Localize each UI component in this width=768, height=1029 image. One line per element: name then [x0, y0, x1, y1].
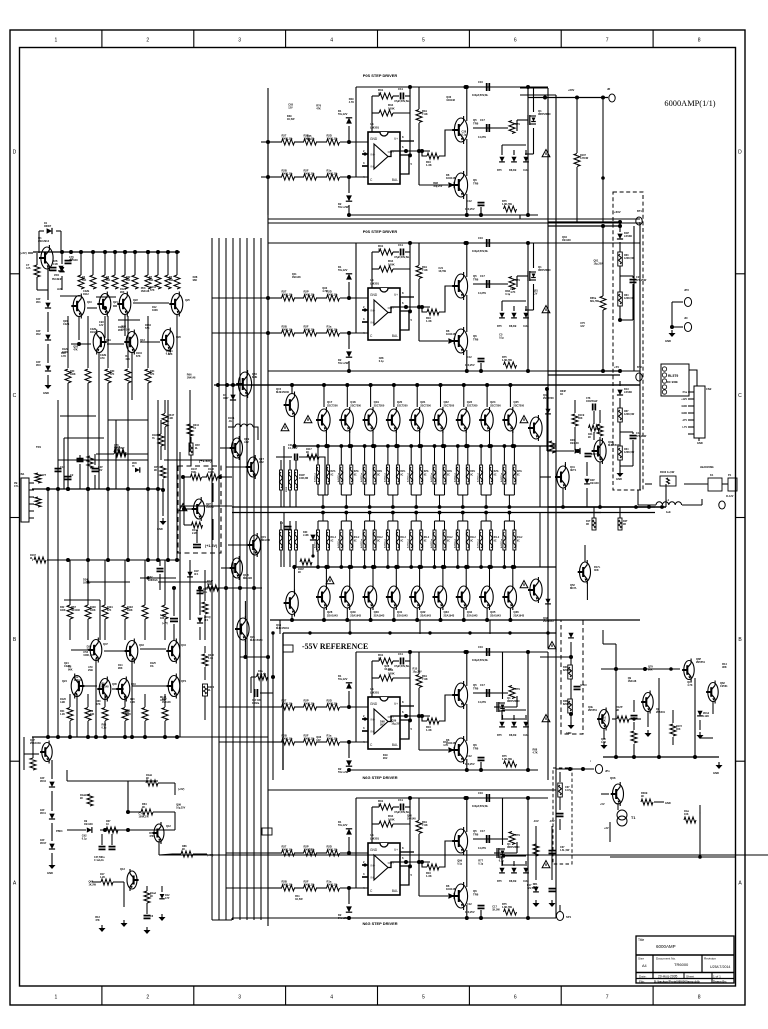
svg-text:1N4148: 1N4148 [162, 701, 171, 704]
svg-text:TR1: TR1 [36, 445, 42, 449]
svg-text:7.9K: 7.9K [422, 677, 428, 681]
svg-text:U25/LT/2014: U25/LT/2014 [710, 965, 730, 969]
svg-text:C12: C12 [467, 355, 472, 359]
svg-text:7A: 7A [193, 427, 196, 430]
svg-text:9L: 9L [208, 689, 211, 692]
svg-text:R64: R64 [563, 666, 568, 669]
svg-text:MC7L: MC7L [570, 586, 577, 590]
svg-text:R34: R34 [150, 370, 155, 373]
svg-text:D8,D9: D8,D9 [509, 879, 517, 883]
svg-text:57K: 57K [150, 374, 155, 376]
svg-text:9C: 9C [142, 805, 145, 809]
svg-text:Q13: Q13 [120, 867, 125, 871]
svg-text:12V: 12V [533, 293, 538, 296]
svg-text:TR6: TR6 [473, 121, 479, 125]
svg-text:ZD1P: ZD1P [40, 842, 47, 845]
svg-text:Date:: Date: [639, 975, 647, 979]
svg-text:0.1µ: 0.1µ [499, 859, 504, 862]
svg-text:4.7K: 4.7K [601, 741, 606, 744]
svg-text:QP1: QP1 [181, 679, 187, 683]
svg-text:Q28: Q28 [327, 610, 333, 614]
svg-text:100K,1%: 100K,1% [282, 883, 294, 887]
svg-text:9C: 9C [400, 541, 403, 543]
svg-text:Q36: Q36 [513, 610, 519, 614]
svg-text:94K: 94K [90, 713, 95, 716]
svg-text:1N4148: 1N4148 [407, 818, 416, 821]
svg-text:100,25V: 100,25V [465, 762, 475, 766]
svg-text:0.1µ: 0.1µ [457, 862, 462, 865]
svg-text:A-SCC-a: A-SCC-a [360, 538, 363, 548]
svg-text:CN1: CN1 [19, 472, 25, 476]
svg-text:1/4R,2W: 1/4R,2W [299, 477, 309, 480]
svg-text:4.7K: 4.7K [322, 290, 327, 293]
svg-text:5% LZW: 5% LZW [338, 205, 349, 209]
svg-text:2K2: 2K2 [380, 724, 385, 727]
svg-text:67K: 67K [136, 355, 141, 358]
svg-text:C10: C10 [478, 791, 483, 795]
svg-text:100K,1%: 100K,1% [282, 848, 294, 852]
svg-text:IRFP260N: IRFP260N [507, 845, 520, 849]
svg-text:47K: 47K [73, 348, 78, 351]
svg-text:1.6K,5W: 1.6K,5W [502, 757, 513, 761]
svg-text:R20: R20 [70, 371, 75, 373]
svg-text:IN+: IN+ [371, 309, 376, 313]
svg-text:4: 4 [330, 38, 333, 44]
svg-text:ZD3: ZD3 [36, 364, 41, 367]
svg-text:10µ,25V: 10µ,25V [413, 671, 423, 674]
svg-text:TR6: TR6 [473, 686, 479, 690]
svg-text:96K: 96K [648, 668, 653, 671]
svg-text:0R: 0R [623, 524, 626, 526]
svg-text:47K: 47K [125, 358, 130, 361]
svg-text:C10: C10 [478, 645, 483, 649]
svg-text:4.7V,C500: 4.7V,C500 [316, 541, 319, 552]
svg-text:5: 5 [422, 995, 425, 1001]
svg-text:2N5551: 2N5551 [588, 708, 598, 712]
svg-text:MJE15031: MJE15031 [276, 626, 289, 630]
svg-text:96K: 96K [601, 719, 606, 722]
svg-text:R2%: R2% [354, 471, 359, 473]
svg-text:IN-: IN- [371, 730, 375, 734]
svg-text:Q22: Q22 [444, 400, 450, 404]
svg-text:1N4148: 1N4148 [71, 609, 80, 612]
svg-text:4.7K/W: 4.7K/W [580, 157, 589, 160]
svg-text:R2%: R2% [517, 471, 522, 473]
svg-text:56K: 56K [82, 280, 87, 282]
svg-text:Q18: Q18 [350, 400, 356, 404]
svg-text:6000AMP(1/1): 6000AMP(1/1) [664, 99, 715, 108]
svg-text:1K,5W: 1K,5W [384, 668, 392, 671]
svg-text:V+: V+ [394, 702, 398, 706]
svg-text:4.7K: 4.7K [349, 101, 354, 104]
svg-text:+60V: +60V [614, 210, 621, 214]
svg-text:A-SCC-a: A-SCC-a [453, 538, 456, 548]
svg-text:9C: 9C [331, 541, 334, 543]
svg-text:GND: GND [682, 412, 688, 415]
svg-text:N6G STEP DRIVER: N6G STEP DRIVER [362, 775, 397, 780]
svg-text:GND: GND [43, 391, 49, 395]
svg-text:C11: C11 [398, 798, 403, 802]
svg-text:CN2: CN2 [706, 387, 712, 391]
svg-text:R79: R79 [515, 122, 520, 126]
svg-text:A-SCC-a: A-SCC-a [383, 472, 386, 482]
svg-text:Size: Size [638, 957, 644, 961]
svg-text:Q19: Q19 [374, 400, 380, 404]
svg-text:A4: A4 [642, 964, 647, 968]
svg-text:5%,12V: 5%,12V [338, 677, 348, 681]
svg-text:C10: C10 [478, 236, 483, 240]
svg-text:100V/BLW: 100V/BLW [586, 401, 598, 403]
svg-text:Q66: Q66 [610, 776, 616, 780]
svg-text:Q44: Q44 [181, 643, 186, 647]
svg-text:C17: C17 [480, 118, 485, 122]
svg-text:100K,1%: 100K,1% [304, 293, 316, 297]
svg-text:C2: C2 [70, 473, 74, 477]
svg-text:Q23: Q23 [467, 400, 473, 404]
svg-text:9C: 9C [641, 794, 644, 798]
svg-text:LM301: LM301 [370, 690, 379, 694]
svg-text:ZD11: ZD11 [40, 812, 46, 815]
svg-text:9C: 9C [80, 797, 83, 800]
svg-text:Q35: Q35 [490, 610, 496, 614]
svg-text:A-SCC-a: A-SCC-a [314, 472, 317, 482]
svg-text:10µ,25V: 10µ,25V [594, 262, 604, 265]
svg-text:0.1µ: 0.1µ [102, 726, 107, 729]
svg-text:160K: 160K [388, 671, 395, 675]
svg-text:9K: 9K [154, 469, 157, 472]
svg-text:12V: 12V [316, 739, 321, 742]
svg-text:R22: R22 [60, 607, 65, 609]
svg-text:TR6: TR6 [473, 892, 479, 896]
svg-text:BT1: BT1 [637, 209, 642, 213]
svg-text:IRFP260N: IRFP260N [538, 268, 551, 272]
svg-text:30K: 30K [578, 417, 583, 420]
svg-text:100K,1%: 100K,1% [327, 702, 339, 706]
svg-text:100K,1%: 100K,1% [304, 883, 316, 887]
svg-text:L12K: L12K [703, 715, 709, 718]
svg-text:7: 7 [606, 38, 609, 44]
svg-text:A-SCC-a: A-SCC-a [337, 472, 340, 482]
svg-text:D:\backup\Protel98\6000amp.ddb: D:\backup\Protel98\6000amp.ddb [654, 980, 700, 984]
svg-text:Q22: Q22 [133, 298, 138, 302]
svg-text:100K,1%: 100K,1% [282, 328, 294, 332]
svg-text:1K,5W: 1K,5W [287, 118, 295, 121]
svg-text:C11: C11 [398, 652, 403, 656]
svg-text:47K: 47K [316, 107, 321, 110]
svg-text:D8,D9: D8,D9 [509, 733, 517, 737]
svg-text:Q29: Q29 [350, 610, 356, 614]
svg-text:100,25V: 100,25V [465, 207, 475, 211]
svg-text:IN-: IN- [371, 321, 375, 325]
svg-text:14,25V: 14,25V [478, 700, 486, 704]
svg-text:R6K: R6K [563, 701, 568, 703]
svg-text:Q19: Q19 [106, 338, 111, 342]
svg-text:0.1µ: 0.1µ [478, 863, 483, 866]
svg-text:C12: C12 [467, 199, 472, 203]
svg-text:Q35: Q35 [112, 682, 117, 686]
svg-text:9C: 9C [400, 475, 403, 477]
svg-text:Q24: Q24 [490, 400, 496, 404]
svg-text:1N4148: 1N4148 [628, 680, 637, 683]
svg-text:4.7K: 4.7K [687, 684, 692, 687]
svg-text:2K: 2K [378, 247, 382, 251]
svg-text:5%,12V: 5%,12V [338, 112, 348, 116]
svg-text:1N4148: 1N4148 [100, 686, 109, 689]
svg-text:MJE15031: MJE15031 [608, 443, 621, 447]
svg-text:9C: 9C [494, 475, 497, 477]
svg-text:1N4148: 1N4148 [69, 259, 78, 262]
svg-text:5%,12V: 5%,12V [338, 268, 348, 272]
svg-text:0.062a: 0.062a [252, 703, 260, 705]
svg-text:4.7L: 4.7L [26, 266, 32, 270]
svg-text:100K,1%: 100K,1% [83, 654, 94, 657]
svg-text:OUT: OUT [388, 306, 395, 310]
svg-text:-10V: -10V [549, 819, 555, 823]
svg-text:Q13: Q13 [140, 338, 145, 342]
svg-text:190K: 190K [90, 610, 96, 612]
svg-text:TR6: TR6 [473, 181, 479, 185]
svg-text:2SA1943: 2SA1943 [420, 614, 431, 618]
svg-text:Revision: Revision [704, 957, 716, 961]
svg-text:0R: 0R [586, 524, 589, 526]
svg-text:JPn: JPn [605, 769, 610, 773]
svg-text:14,25V: 14,25V [478, 846, 486, 850]
svg-text:C31: C31 [288, 445, 293, 447]
svg-text:190K: 190K [208, 471, 214, 474]
svg-text:2SB: 2SB [88, 669, 93, 672]
svg-text:R1L2: R1L2 [447, 537, 453, 539]
svg-text:Q30: Q30 [374, 610, 380, 614]
svg-text:IN+: IN+ [371, 718, 376, 722]
svg-text:820PM: 820PM [563, 704, 570, 706]
svg-text:14,25V: 14,25V [478, 135, 486, 139]
svg-text:100K,1%: 100K,1% [139, 816, 150, 819]
svg-text:820PM: 820PM [563, 670, 570, 672]
svg-text:1.2K: 1.2K [60, 714, 65, 716]
svg-text:22835x6: 22835x6 [148, 579, 158, 582]
svg-text:P1a: P1a [683, 391, 688, 394]
svg-text:CTL: CTL [14, 485, 19, 488]
svg-text:1N4148: 1N4148 [446, 176, 456, 180]
svg-text:TR6: TR6 [473, 277, 479, 281]
svg-text:1N4148: 1N4148 [446, 332, 456, 336]
svg-text:R1E0: R1E0 [90, 607, 97, 609]
svg-text:100K,1%: 100K,1% [327, 293, 339, 297]
svg-text:2SC7200: 2SC7200 [543, 396, 554, 400]
svg-text:9C: 9C [588, 436, 591, 439]
svg-text:GND: GND [665, 339, 671, 343]
svg-text:R75: R75 [497, 324, 502, 328]
svg-text:A62: A62 [259, 460, 264, 464]
svg-text:C 1ab,1b: C 1ab,1b [94, 860, 104, 862]
svg-text:Q31: Q31 [397, 610, 403, 614]
svg-text:96K: 96K [68, 669, 73, 672]
svg-text:100K,1%: 100K,1% [327, 328, 339, 332]
svg-text:56K: 56K [149, 280, 154, 282]
svg-text:C17: C17 [480, 274, 485, 278]
svg-text:LM301: LM301 [370, 125, 379, 129]
svg-text:9L: 9L [195, 447, 198, 450]
svg-text:IRFP260N: IRFP260N [538, 112, 551, 116]
svg-text:120K,5W: 120K,5W [624, 413, 635, 416]
svg-text:2SA1943: 2SA1943 [513, 614, 524, 618]
svg-text:8: 8 [698, 38, 701, 44]
svg-text:A-SCC-a: A-SCC-a [360, 472, 363, 482]
svg-text:Q12: Q12 [166, 824, 171, 828]
svg-text:96K: 96K [125, 712, 130, 715]
svg-text:190K: 190K [152, 309, 158, 312]
svg-text:A-SCC-a: A-SCC-a [500, 538, 503, 548]
svg-text:9C: 9C [494, 541, 497, 543]
svg-text:47µF,50V,NL: 47µF,50V,NL [394, 99, 410, 103]
svg-text:2SC7200: 2SC7200 [490, 404, 501, 408]
svg-text:9C: 9C [354, 475, 357, 477]
svg-text:BT3: BT3 [637, 365, 642, 369]
svg-text:100K,1%: 100K,1% [304, 328, 316, 332]
svg-text:18K: 18K [160, 617, 165, 620]
svg-text:100µF,50V,NL: 100µF,50V,NL [472, 93, 489, 97]
svg-text:Z2B: Z2B [53, 261, 58, 263]
svg-text:9C: 9C [377, 475, 380, 477]
svg-text:C1B: C1B [53, 264, 58, 266]
svg-text:47K: 47K [96, 703, 101, 706]
svg-text:47K: 47K [149, 835, 154, 838]
svg-text:D8,D9: D8,D9 [509, 324, 517, 328]
svg-text:Q34: Q34 [467, 610, 473, 614]
svg-text:BAL: BAL [392, 178, 398, 182]
svg-text:GND: GND [665, 801, 671, 805]
svg-text:2SA1943: 2SA1943 [490, 614, 501, 618]
svg-text:-10V: -10V [533, 819, 539, 823]
svg-text:1: 1 [54, 38, 57, 44]
svg-text:GND: GND [47, 871, 53, 875]
svg-text:1.6K,5W: 1.6K,5W [502, 202, 513, 206]
svg-text:100µF,50V,NL: 100µF,50V,NL [472, 658, 489, 662]
svg-text:-55V REFERENCE: -55V REFERENCE [302, 642, 368, 651]
svg-text:R2%: R2% [400, 471, 405, 473]
svg-text:A-SCC-a: A-SCC-a [477, 472, 480, 482]
svg-text:BAL: BAL [392, 334, 398, 338]
svg-text:Q25: Q25 [185, 298, 190, 302]
svg-text:R1L2: R1L2 [354, 537, 360, 539]
svg-text:V+: V+ [394, 848, 398, 852]
svg-text:L13K: L13K [303, 535, 309, 537]
svg-text:R1L2: R1L2 [470, 537, 476, 539]
svg-text:D8,D9: D8,D9 [509, 168, 517, 172]
svg-text:1N4148: 1N4148 [562, 239, 571, 242]
svg-text:2SC7200: 2SC7200 [327, 404, 338, 408]
svg-text:C12: C12 [467, 902, 472, 906]
svg-text:BAL: BAL [392, 743, 398, 747]
svg-text:Q24: Q24 [62, 679, 67, 683]
svg-text:1N4148: 1N4148 [187, 376, 196, 379]
svg-text:MJE: MJE [252, 375, 258, 379]
svg-text:1K,5W: 1K,5W [295, 898, 303, 901]
svg-text:Q33: Q33 [444, 610, 450, 614]
svg-text:160K: 160K [388, 817, 395, 821]
svg-text:C: C [738, 393, 742, 399]
svg-text:160K: 160K [388, 262, 395, 266]
svg-text:190K: 190K [60, 610, 66, 612]
svg-text:D30: D30 [303, 532, 308, 534]
svg-text:2SC7200: 2SC7200 [374, 404, 385, 408]
svg-text:Q21: Q21 [113, 300, 118, 304]
svg-text:2: 2 [146, 995, 149, 1001]
svg-text:R79: R79 [515, 278, 520, 282]
svg-text:8: 8 [698, 995, 701, 1001]
svg-text:2K: 2K [378, 91, 382, 95]
svg-text:C: C [13, 393, 17, 399]
svg-text:12V: 12V [288, 106, 293, 109]
svg-text:100K,1%: 100K,1% [304, 737, 316, 741]
svg-text:67K: 67K [107, 610, 112, 612]
svg-text:4.7K: 4.7K [61, 355, 66, 358]
svg-text:57K: 57K [110, 374, 115, 376]
svg-text:470,25W: 470,25W [636, 278, 647, 282]
svg-text:D: D [738, 149, 742, 155]
svg-text:470,25W: 470,25W [636, 434, 647, 438]
svg-text:1K,5W: 1K,5W [83, 581, 91, 584]
svg-text:R1T: R1T [586, 521, 591, 523]
svg-text:7.9K: 7.9K [422, 268, 428, 272]
svg-text:56K: 56K [126, 280, 131, 282]
svg-text:100K,1%: 100K,1% [304, 702, 316, 706]
svg-text:1.3K: 1.3K [426, 874, 432, 878]
svg-text:100,25V: 100,25V [465, 910, 475, 914]
svg-text:R2%: R2% [331, 471, 336, 473]
svg-text:3: 3 [238, 995, 241, 1001]
svg-text:SP1: SP1 [566, 915, 572, 919]
svg-text:Q10: Q10 [87, 300, 92, 304]
svg-text:30K: 30K [676, 728, 681, 731]
svg-text:100K,1%: 100K,1% [327, 137, 339, 141]
svg-text:1 of 1: 1 of 1 [713, 975, 721, 979]
svg-text:R2%: R2% [377, 471, 382, 473]
svg-text:1N4148: 1N4148 [570, 442, 579, 445]
svg-text:ZD1: ZD1 [36, 301, 41, 304]
svg-text:0.1µ: 0.1µ [166, 353, 171, 356]
svg-text:2SC7200: 2SC7200 [444, 404, 455, 408]
svg-text:9C: 9C [354, 541, 357, 543]
svg-text:JP3: JP3 [684, 288, 689, 292]
svg-text:190K: 190K [127, 610, 133, 612]
svg-text:2SA1649: 2SA1649 [30, 741, 41, 745]
svg-text:GND: GND [713, 771, 719, 775]
svg-text:20-Aug-2005: 20-Aug-2005 [658, 975, 678, 979]
svg-text:C1F 1BF: C1F 1BF [252, 700, 262, 702]
svg-text:100K,1%: 100K,1% [327, 848, 339, 852]
svg-text:GND: GND [682, 405, 688, 408]
svg-text:9C: 9C [517, 541, 520, 543]
svg-text:TR6: TR6 [473, 337, 479, 341]
svg-text:56K: 56K [106, 280, 111, 282]
svg-text:R79: R79 [515, 687, 520, 691]
svg-text:A-SCC-a: A-SCC-a [407, 538, 410, 548]
svg-text:4ET1: 4ET1 [570, 468, 577, 472]
svg-text:10K: 10K [684, 813, 689, 816]
svg-text:0.1,100V: 0.1,100V [288, 448, 298, 450]
svg-text:IN+: IN+ [371, 864, 376, 868]
svg-text:C17: C17 [480, 829, 485, 833]
svg-text:1N4148: 1N4148 [446, 887, 456, 891]
svg-text:3: 3 [238, 38, 241, 44]
svg-text:+5V: +5V [614, 365, 619, 369]
svg-text:100K,1%: 100K,1% [327, 883, 339, 887]
svg-text:2: 2 [146, 38, 149, 44]
svg-text:4.7K: 4.7K [510, 291, 515, 294]
svg-text:96K: 96K [118, 667, 123, 670]
svg-text:2SA1943: 2SA1943 [397, 614, 408, 618]
